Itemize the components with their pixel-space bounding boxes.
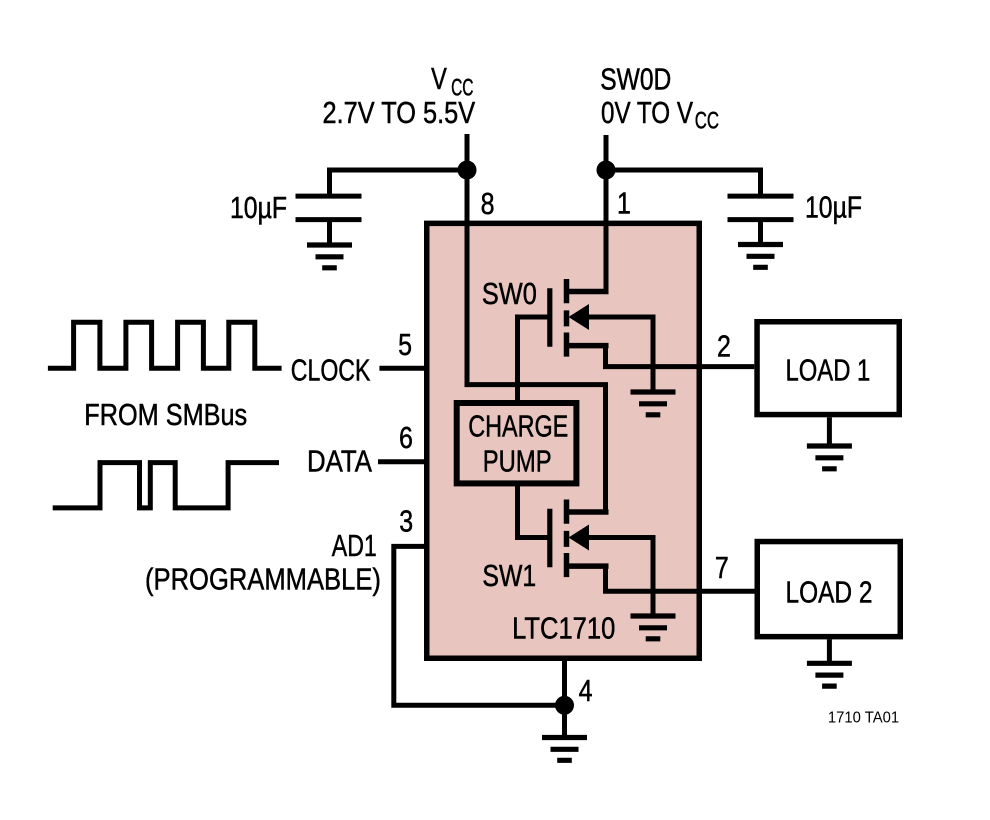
svg-text:SW0: SW0 bbox=[482, 277, 537, 311]
wire pin 6 DATA bbox=[378, 459, 424, 464]
wire SW1 source to pin 7 and LOAD 2 bbox=[606, 566, 755, 592]
node VCC label bbox=[323, 62, 476, 130]
ground SW0 body bbox=[631, 392, 676, 415]
transistor SW0 bbox=[550, 279, 609, 357]
wire pin 8 VCC into IC to SW1 drain bbox=[467, 170, 606, 514]
wire pin 3 AD1 down to pin 4 junction bbox=[394, 546, 565, 705]
ground LOAD 1 bbox=[807, 446, 852, 469]
svg-text:CC: CC bbox=[695, 108, 719, 135]
svg-text:0V TO V: 0V TO V bbox=[601, 96, 694, 130]
wire SW1 body to ground bbox=[589, 538, 653, 617]
capacitor C2 10uF right bbox=[728, 196, 794, 244]
svg-text:1710 TA01: 1710 TA01 bbox=[828, 709, 899, 726]
wire SW0 source to pin 2 and LOAD 1 bbox=[606, 346, 755, 367]
ground left capacitor bbox=[307, 245, 352, 268]
wire LOAD 2 to ground bbox=[827, 639, 832, 663]
wire SW0 gate to charge pump bbox=[518, 317, 550, 403]
svg-text:7: 7 bbox=[715, 551, 729, 585]
svg-text:6: 6 bbox=[399, 421, 413, 455]
svg-text:1: 1 bbox=[617, 187, 631, 221]
svg-text:FROM SMBus: FROM SMBus bbox=[84, 398, 247, 432]
wire pin 4 to ground bbox=[562, 656, 567, 735]
svg-text:DATA: DATA bbox=[307, 445, 373, 479]
svg-text:LOAD 1: LOAD 1 bbox=[786, 353, 871, 387]
wire SW0D feed down to SW0 drain bbox=[604, 135, 609, 294]
waveform clock from SMBus bbox=[48, 322, 282, 368]
LOAD 1 box bbox=[757, 322, 899, 415]
LOAD 2 box bbox=[757, 542, 900, 637]
capacitor C1 10uF left bbox=[296, 196, 362, 245]
node B junction dot SW0D bbox=[597, 161, 616, 180]
svg-text:AD1: AD1 bbox=[332, 529, 377, 563]
wire LOAD 1 to ground bbox=[827, 417, 832, 446]
svg-text:SW0D: SW0D bbox=[600, 63, 671, 97]
ground LOAD 2 bbox=[807, 663, 852, 686]
node A junction dot VCC bbox=[458, 161, 477, 180]
wire pin 5 CLOCK bbox=[379, 366, 424, 371]
svg-text:5: 5 bbox=[398, 328, 412, 362]
wire VCC feed down to junction bbox=[465, 134, 470, 170]
svg-text:V: V bbox=[431, 62, 447, 96]
IC U1 LTC1710 body bbox=[427, 223, 700, 658]
wire junction to right capacitor bbox=[606, 170, 761, 196]
svg-text:2: 2 bbox=[717, 329, 731, 363]
svg-text:PUMP: PUMP bbox=[483, 445, 552, 479]
svg-text:SW1: SW1 bbox=[482, 559, 536, 593]
node SW0D label bbox=[600, 63, 719, 135]
svg-text:LOAD 2: LOAD 2 bbox=[786, 575, 873, 609]
charge pump U2 box bbox=[457, 403, 577, 483]
ground pin 4 bbox=[542, 738, 587, 761]
svg-text:10µF: 10µF bbox=[230, 191, 287, 225]
svg-text:CLOCK: CLOCK bbox=[291, 353, 371, 387]
svg-text:10µF: 10µF bbox=[805, 191, 862, 225]
wire SW0 body to ground bbox=[589, 317, 653, 392]
wire charge pump to SW1 gate bbox=[518, 483, 550, 537]
transistor SW1 bbox=[550, 500, 609, 578]
svg-text:CHARGE: CHARGE bbox=[468, 410, 568, 444]
charge pump label bbox=[468, 410, 568, 479]
svg-text:(PROGRAMMABLE): (PROGRAMMABLE) bbox=[145, 563, 381, 597]
svg-text:2.7V TO 5.5V: 2.7V TO 5.5V bbox=[323, 96, 476, 130]
node C junction dot pin 4 bbox=[555, 696, 574, 715]
svg-text:4: 4 bbox=[579, 674, 593, 708]
waveform data from SMBus bbox=[53, 463, 279, 508]
svg-text:8: 8 bbox=[481, 187, 495, 221]
ground right capacitor bbox=[738, 245, 783, 268]
svg-text:3: 3 bbox=[399, 505, 413, 539]
svg-text:LTC1710: LTC1710 bbox=[512, 611, 615, 645]
wire junction to left capacitor bbox=[330, 170, 468, 196]
ground SW1 body bbox=[631, 616, 676, 639]
